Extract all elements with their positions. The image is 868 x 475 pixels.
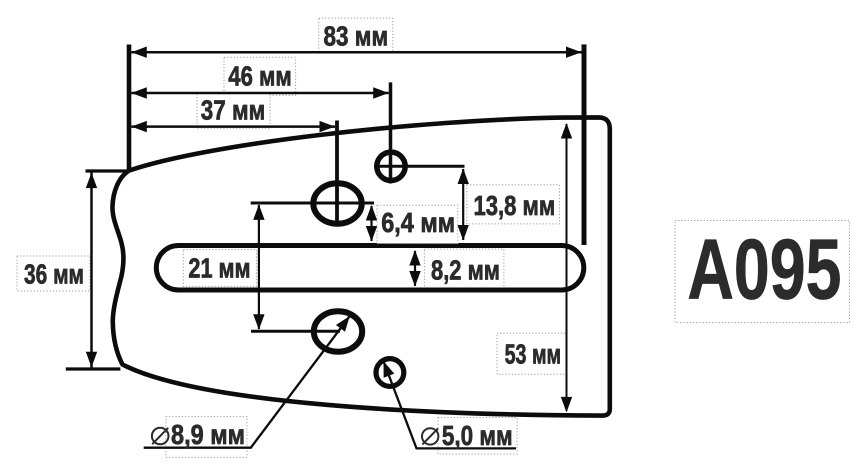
svg-text:6,4 мм: 6,4 мм <box>381 207 455 238</box>
svg-text:37 мм: 37 мм <box>201 95 265 126</box>
svg-text:36 мм: 36 мм <box>24 259 84 290</box>
svg-text:46 мм: 46 мм <box>228 61 291 92</box>
svg-text:8,9 мм: 8,9 мм <box>171 419 245 450</box>
svg-text:21 мм: 21 мм <box>188 252 250 283</box>
svg-text:5,0 мм: 5,0 мм <box>442 420 513 451</box>
svg-text:83 мм: 83 мм <box>324 21 389 52</box>
svg-text:53 мм: 53 мм <box>505 338 561 369</box>
svg-text:13,8 мм: 13,8 мм <box>474 190 556 221</box>
svg-text:A095: A095 <box>687 222 841 317</box>
svg-text:8,2 мм: 8,2 мм <box>431 254 500 285</box>
